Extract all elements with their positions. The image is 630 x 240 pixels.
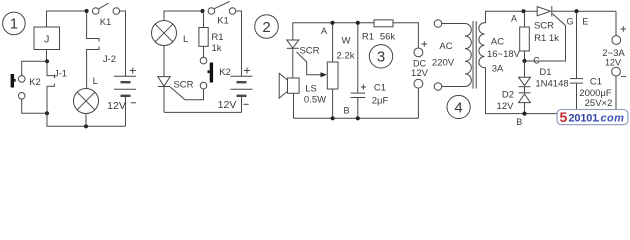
zener D2	[519, 87, 531, 114]
SCR (thyristor)	[158, 46, 170, 113]
svg-text:2.2k: 2.2k	[337, 51, 355, 62]
wire J top to rail	[47, 11, 87, 27]
battery 12V	[114, 76, 136, 126]
transformer primary winding	[465, 24, 471, 87]
circled number 4	[447, 95, 470, 118]
pushbutton K2	[11, 74, 25, 99]
speaker LS	[279, 73, 299, 118]
plus sign C1	[361, 84, 366, 89]
circled number 1	[3, 12, 26, 35]
bottom rail	[294, 117, 419, 119]
node dot top	[85, 9, 89, 13]
potentiometer W 2.2k	[327, 25, 338, 119]
svg-text:G: G	[566, 17, 573, 27]
node B dot	[522, 112, 526, 116]
node dot for C1 branch	[356, 21, 360, 25]
transformer secondary winding	[479, 23, 485, 68]
resistor R1 1k	[520, 13, 530, 61]
svg-text:K1: K1	[217, 16, 229, 27]
lamp L	[152, 11, 203, 46]
relay coil J	[34, 27, 60, 50]
wire K2 bottom to join	[22, 99, 47, 113]
bottom rail	[164, 111, 242, 113]
SCR gate wire	[527, 14, 566, 61]
svg-text:12V: 12V	[497, 101, 515, 112]
svg-text:W: W	[342, 36, 351, 47]
SCR (thyristor)	[537, 6, 616, 16]
node dot bottom	[84, 124, 88, 128]
svg-text:SCR: SCR	[534, 20, 554, 31]
resistor R1	[199, 13, 208, 57]
svg-text:12V: 12V	[218, 99, 237, 111]
circled number 2	[255, 15, 279, 39]
secondary top lead to rail	[485, 11, 538, 23]
plus sign	[130, 68, 136, 74]
node dot A branch	[521, 9, 525, 13]
watermark badge 520101.com	[557, 109, 628, 125]
svg-text:L: L	[183, 34, 188, 45]
SCR (thyristor)	[287, 23, 374, 78]
svg-text:R1 1k: R1 1k	[534, 33, 559, 44]
svg-text:E: E	[582, 17, 588, 27]
minus sign	[131, 102, 136, 104]
output terminal plus	[612, 11, 621, 44]
svg-text:25V×2: 25V×2	[585, 98, 613, 109]
capacitor C1	[570, 13, 583, 113]
svg-text:C1: C1	[590, 77, 602, 88]
DC terminal bottom	[414, 79, 423, 118]
svg-text:K2: K2	[219, 67, 231, 78]
svg-text:DC: DC	[413, 59, 426, 69]
node A dot	[330, 21, 334, 25]
switch K1	[92, 3, 125, 76]
svg-text:12V: 12V	[411, 68, 429, 79]
svg-text:LS: LS	[305, 84, 317, 95]
node dot C1 bottom	[574, 112, 578, 116]
svg-text:56k: 56k	[380, 32, 396, 43]
node dot C1 bottom	[356, 116, 360, 120]
svg-text:2: 2	[262, 19, 270, 36]
svg-text:1: 1	[10, 16, 18, 33]
node E dot	[574, 9, 578, 13]
gate wire from K2 to SCR	[170, 87, 203, 100]
DC terminal top	[414, 48, 423, 57]
minus sign output	[621, 75, 626, 77]
svg-text:1k: 1k	[211, 43, 221, 54]
relay contact J-1	[47, 63, 54, 113]
svg-text:D2: D2	[502, 90, 514, 101]
secondary bottom lead	[485, 68, 617, 114]
relay contact J-2	[87, 13, 99, 89]
plus sign DC	[422, 41, 428, 47]
svg-text:A: A	[511, 14, 517, 24]
svg-text:C1: C1	[374, 83, 386, 94]
battery 12V	[231, 76, 253, 112]
lamp L	[74, 89, 99, 127]
svg-text:SCR: SCR	[299, 46, 319, 57]
svg-text:J: J	[44, 34, 49, 46]
svg-text:J-1: J-1	[54, 69, 67, 80]
wire left branch from coil bottom	[46, 50, 48, 62]
gate wire to potentiometer wiper	[297, 52, 321, 75]
capacitor C1	[351, 25, 366, 119]
output terminal minus	[612, 67, 621, 113]
pushbutton K2	[200, 57, 213, 89]
svg-text:12V: 12V	[605, 58, 621, 68]
svg-text:AC: AC	[439, 41, 452, 52]
diode D1	[519, 61, 531, 87]
circled number 3	[369, 45, 392, 68]
node dot pot bottom	[331, 116, 335, 120]
svg-text:4: 4	[454, 99, 462, 116]
svg-text:2μF: 2μF	[372, 96, 389, 107]
AC input terminal bottom	[434, 83, 465, 91]
plus sign	[244, 68, 250, 74]
svg-text:0.5W: 0.5W	[304, 95, 326, 106]
node C dot	[522, 59, 526, 63]
node dot join	[45, 111, 49, 115]
svg-text:R1: R1	[211, 32, 223, 43]
minus sign	[244, 103, 249, 105]
svg-text:K2: K2	[29, 77, 41, 88]
svg-text:L: L	[93, 76, 98, 87]
svg-text:20101: 20101	[569, 113, 599, 125]
plus sign output	[621, 26, 627, 32]
label AC 16~18V 3A	[487, 37, 521, 75]
transformer core	[473, 21, 476, 89]
svg-text:220V: 220V	[432, 58, 455, 69]
label AC 220V	[432, 41, 455, 69]
wiper arrow	[321, 72, 327, 77]
svg-text:3: 3	[377, 49, 385, 66]
svg-text:D1: D1	[539, 67, 551, 78]
node dot mid	[45, 59, 49, 63]
wire to K2	[22, 61, 47, 75]
svg-text:A: A	[321, 26, 327, 36]
svg-text:.com: .com	[597, 113, 624, 125]
resistor R1 56k	[374, 20, 418, 48]
svg-text:B: B	[516, 117, 522, 127]
svg-text:AC: AC	[491, 37, 504, 48]
svg-text:SCR: SCR	[173, 80, 193, 91]
svg-text:R1: R1	[362, 32, 374, 43]
svg-text:C: C	[533, 56, 540, 66]
svg-text:J-2: J-2	[103, 54, 116, 65]
node dot top	[200, 9, 204, 13]
svg-text:16~18V: 16~18V	[487, 49, 521, 60]
svg-text:3A: 3A	[492, 64, 504, 75]
svg-text:1N4148: 1N4148	[535, 79, 568, 90]
AC input terminal top	[434, 20, 465, 28]
wire to bottom rail	[47, 113, 126, 126]
svg-text:5: 5	[560, 109, 568, 125]
switch K1	[208, 2, 241, 77]
svg-text:12V: 12V	[107, 100, 126, 112]
svg-text:K1: K1	[100, 17, 112, 28]
svg-text:B: B	[343, 106, 349, 116]
